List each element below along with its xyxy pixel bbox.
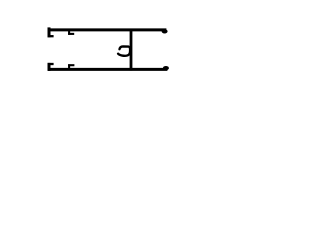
wire bottom horizontal — [48, 66, 169, 70]
terminal hook top second — [68, 30, 74, 34]
terminal hook top-left — [48, 27, 54, 37]
terminal hook bottom-left — [48, 63, 54, 71]
pin number 3 — [118, 46, 130, 55]
wire top horizontal — [48, 29, 168, 33]
wire vertical connecting link — [130, 29, 133, 71]
terminal hook bottom second — [68, 64, 74, 69]
